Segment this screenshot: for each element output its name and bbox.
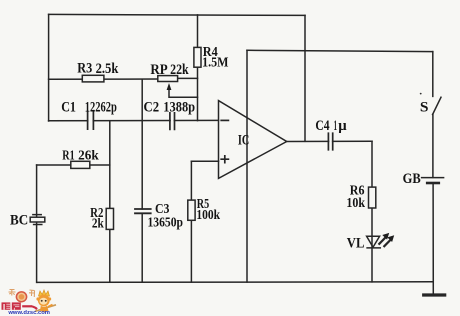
label R1 <box>62 148 74 163</box>
capacitor C4 <box>328 133 332 150</box>
switch S <box>433 97 441 114</box>
label R5 <box>197 197 209 212</box>
label IC <box>238 133 249 149</box>
wire BC branch vertical <box>36 165 38 282</box>
battery GB <box>422 178 444 183</box>
LED arrow 1 <box>379 233 389 244</box>
label R1 value <box>78 148 99 163</box>
label RP value <box>170 62 189 78</box>
resistor R4 <box>194 47 201 67</box>
svg-text:BC: BC <box>10 212 28 228</box>
svg-text:R3: R3 <box>77 61 92 77</box>
label R5 value <box>196 208 220 223</box>
label S <box>420 100 429 116</box>
svg-text:2.5k: 2.5k <box>96 61 119 77</box>
svg-text:C2: C2 <box>144 99 160 115</box>
wire R5 branch vertical <box>190 161 192 282</box>
op-amp plus sign <box>221 156 228 163</box>
svg-text:C4: C4 <box>315 118 330 134</box>
wire C3 branch vertical <box>141 79 143 282</box>
label R2 value <box>92 217 104 232</box>
svg-text:C1: C1 <box>61 99 76 115</box>
svg-text:1.5M: 1.5M <box>202 55 229 70</box>
resistor R5 <box>188 200 195 220</box>
LED VL <box>367 236 381 248</box>
label C2 value <box>163 99 195 115</box>
emblem ring <box>16 291 28 302</box>
wire RP right to R4 line <box>178 77 198 79</box>
label C1 value <box>85 99 117 115</box>
svg-text:μ: μ <box>338 118 347 134</box>
wire R4 branch vertical <box>197 15 199 121</box>
svg-text:S: S <box>420 100 429 116</box>
svg-text:VL: VL <box>347 235 365 251</box>
label C4 value <box>334 118 347 134</box>
label C2 <box>144 99 160 115</box>
watermark logo <box>2 289 57 316</box>
wire R6/VL branch vertical <box>371 141 373 282</box>
svg-text:26k: 26k <box>78 148 99 163</box>
op-amp IC <box>219 101 287 179</box>
label C3 <box>155 202 170 217</box>
svg-text:1388p: 1388p <box>163 99 195 115</box>
label C3 value <box>148 216 184 231</box>
label VL <box>347 235 365 251</box>
svg-text:1: 1 <box>334 118 337 134</box>
op-amp minus sign <box>221 119 228 121</box>
wire output feedback vertical <box>304 15 306 141</box>
red glyph 2 <box>12 302 21 309</box>
svg-text:R1: R1 <box>62 148 74 163</box>
svg-text:13650p: 13650p <box>148 216 184 231</box>
label R6 value <box>346 196 365 211</box>
wire R1/R2 junction vertical <box>109 121 111 283</box>
wire top feedback rail <box>49 14 305 15</box>
wire R3/RP row <box>49 78 158 80</box>
label R4 <box>203 44 218 59</box>
wire power top row to switch <box>247 50 433 51</box>
transducer BC <box>30 215 45 225</box>
switch dot mark <box>420 93 422 95</box>
svg-text:RP: RP <box>150 62 167 78</box>
svg-text:IC: IC <box>238 133 249 149</box>
monkey head <box>38 295 50 307</box>
svg-text:100k: 100k <box>196 208 220 223</box>
resistor R3 <box>82 75 104 82</box>
label R2 <box>90 206 103 221</box>
wire output row <box>287 140 373 142</box>
monkey staff <box>35 305 56 312</box>
wire inverting input row <box>49 119 219 121</box>
resistor R2 <box>106 208 113 229</box>
svg-text:22k: 22k <box>170 62 189 78</box>
resistor R1 <box>71 161 90 168</box>
potentiometer RP <box>158 76 178 82</box>
wiper arrowhead <box>167 83 172 90</box>
label C1 <box>61 99 76 115</box>
wire op-amp power vertical <box>246 50 248 282</box>
label C4 <box>315 118 330 134</box>
red stroke bar <box>22 305 32 307</box>
wire bottom rail <box>38 281 434 284</box>
svg-text:GB: GB <box>403 171 421 187</box>
svg-text:12262p: 12262p <box>85 99 117 115</box>
ground <box>424 293 445 296</box>
wire RP wiper to R4 line <box>169 87 198 98</box>
label GB <box>403 171 421 187</box>
capacitor C3 <box>135 209 151 213</box>
red hook stroke <box>32 305 38 310</box>
capacitor C1 <box>88 112 94 129</box>
label R4 value <box>202 55 229 70</box>
label BC <box>10 212 28 228</box>
wire non-inverting input row <box>191 160 218 162</box>
capacitor C2 <box>170 113 175 130</box>
label R3 value <box>96 61 119 77</box>
wire right battery branch upper <box>432 52 434 97</box>
LED arrow 2 <box>384 235 394 246</box>
monkey crown <box>39 290 50 296</box>
label R6 <box>350 184 365 199</box>
monkey eyes <box>41 300 43 302</box>
svg-text:2k: 2k <box>92 217 104 232</box>
label RP <box>150 62 167 78</box>
svg-text:10k: 10k <box>346 196 365 211</box>
monkey ears <box>36 297 39 300</box>
label R3 <box>77 61 92 77</box>
resistor R6 <box>369 187 376 208</box>
svg-text:www.dzsc.com: www.dzsc.com <box>7 310 50 316</box>
emblem right glyph <box>29 290 35 297</box>
emblem left glyph <box>9 289 16 296</box>
wire right battery branch lower <box>432 114 434 294</box>
wire R1 row <box>37 164 110 166</box>
red glyph 1 <box>2 302 11 309</box>
wire left vertical <box>48 14 50 121</box>
monkey body <box>40 306 49 312</box>
